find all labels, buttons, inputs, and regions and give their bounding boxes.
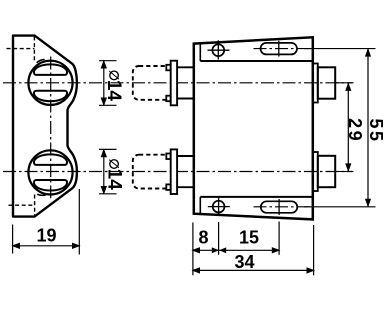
dimension 55 extension line bottom xyxy=(304,206,376,208)
magnet circle bottom xyxy=(28,150,72,194)
dimension 55 line xyxy=(367,49,369,207)
centerline axis bottom plunger xyxy=(3,171,353,173)
retaining pip top upper xyxy=(166,65,170,71)
centerline vertical left view xyxy=(50,57,52,199)
mounting slot top vertical line xyxy=(278,41,280,57)
dimension 19 line xyxy=(13,245,80,247)
hidden edge dashed vertical bottom xyxy=(34,195,36,217)
dia 14 dim bottom: line xyxy=(103,149,105,193)
dia 14 dim top: extension stub upper xyxy=(99,60,117,62)
plunger flange top xyxy=(171,61,177,106)
housing body outline right view xyxy=(194,37,313,219)
bottom dims extension line body left xyxy=(192,223,194,276)
dia 14 dim bottom: arrow up xyxy=(101,149,107,158)
retaining pip top lower xyxy=(166,96,170,102)
centerline axis top plunger xyxy=(3,82,353,84)
dimension 29 line xyxy=(347,83,349,172)
screw hole top crosshair xyxy=(208,40,230,59)
dimension 55 arrow down xyxy=(365,199,371,208)
plunger shaft top upper line xyxy=(177,66,194,68)
dimension 19 extension line right xyxy=(78,189,80,255)
bottom dims extension line slot xyxy=(278,222,280,255)
dimension 34 line xyxy=(193,269,314,271)
dia 14 dim bottom: arrow down xyxy=(101,186,107,195)
screw hole bottom crosshair xyxy=(208,197,230,216)
pole slot top circle lower xyxy=(34,91,67,102)
boss flange bottom xyxy=(313,152,318,191)
housing flange strip line top xyxy=(200,60,312,62)
svg-text:55: 55 xyxy=(366,118,386,143)
dimension 19 arrow right xyxy=(72,243,81,249)
boss cap top xyxy=(318,67,335,98)
dia 14 dim bottom: extension stub upper xyxy=(99,148,117,150)
chamfer intersection arc top xyxy=(37,59,45,62)
ghost plunger top dashed outline xyxy=(133,66,167,100)
dimension 34 arrow right xyxy=(307,267,316,273)
plunger flange bottom xyxy=(171,149,177,194)
dimension 55 arrow up xyxy=(365,48,371,57)
bottom dims extension line body right xyxy=(313,225,315,275)
svg-text:19: 19 xyxy=(36,225,56,245)
hidden edge dashed horizontal bottom xyxy=(9,204,35,206)
dimension 8 arrow left xyxy=(191,247,200,253)
dimension 15 arrow right xyxy=(272,247,281,253)
magnet circle top xyxy=(28,61,72,105)
dia 14 dim top: arrow down xyxy=(101,98,107,107)
dimension 34 arrow left xyxy=(191,267,200,273)
plunger shaft bottom upper line xyxy=(177,155,194,157)
svg-text:14: 14 xyxy=(103,80,124,102)
bottom dims extension line screw hole xyxy=(218,222,220,255)
dimension 19 arrow left xyxy=(11,243,20,249)
plunger shaft bottom lower line xyxy=(177,186,194,188)
boss cap bottom xyxy=(318,156,335,187)
housing flange strip line bottom xyxy=(200,196,312,198)
mounting slot bottom xyxy=(261,201,298,213)
pole slot top circle upper xyxy=(34,64,67,75)
dimension 29 arrow down xyxy=(345,163,351,172)
screw hole bottom circle xyxy=(213,201,225,213)
dia 14 dim top: arrow up xyxy=(101,60,107,69)
svg-text:34: 34 xyxy=(234,252,254,272)
mounting slot bottom vertical line xyxy=(278,199,280,215)
screw hole top circle xyxy=(212,44,224,56)
svg-text:8: 8 xyxy=(198,228,208,248)
dimension 29 arrow up xyxy=(345,82,351,91)
dimension 15 arrow left (bowtie right part) xyxy=(219,247,226,253)
dimension 55 extension line top xyxy=(304,48,376,50)
dimension 8-15 line xyxy=(193,249,279,251)
housing inner vertical top xyxy=(199,43,201,61)
svg-text:14: 14 xyxy=(103,169,124,191)
dimension 19 extension line left xyxy=(12,225,14,254)
boss flange top xyxy=(313,64,318,103)
svg-text:29: 29 xyxy=(345,118,365,143)
retaining pip bottom lower xyxy=(166,184,170,190)
dia 14 dim bottom: extension stub lower xyxy=(99,193,117,195)
left view body outline xyxy=(13,36,77,217)
housing inner vertical bottom xyxy=(199,197,201,214)
mounting slot top xyxy=(261,43,298,55)
dimension 29 extension line bottom xyxy=(335,171,353,173)
mounting slot bottom centerline xyxy=(254,206,314,208)
chamfer intersection arc bottom xyxy=(37,194,46,195)
plunger shaft top lower line xyxy=(177,98,194,100)
dimension 29 extension line top xyxy=(335,82,353,84)
pole slot bottom circle upper xyxy=(34,154,67,165)
pole slot bottom circle lower xyxy=(34,180,67,191)
dimension 8 arrow right (bowtie left part) xyxy=(212,247,219,253)
hidden edge dashed vertical top xyxy=(33,37,35,61)
retaining pip bottom upper xyxy=(166,154,170,160)
mounting slot top centerline xyxy=(254,48,314,50)
ghost plunger bottom dashed outline xyxy=(133,155,167,189)
hidden edge dashed horizontal top xyxy=(7,48,35,50)
dia 14 dim top: line xyxy=(103,61,105,106)
svg-text:15: 15 xyxy=(239,228,259,248)
dia 14 dim top: extension stub lower xyxy=(99,104,117,106)
